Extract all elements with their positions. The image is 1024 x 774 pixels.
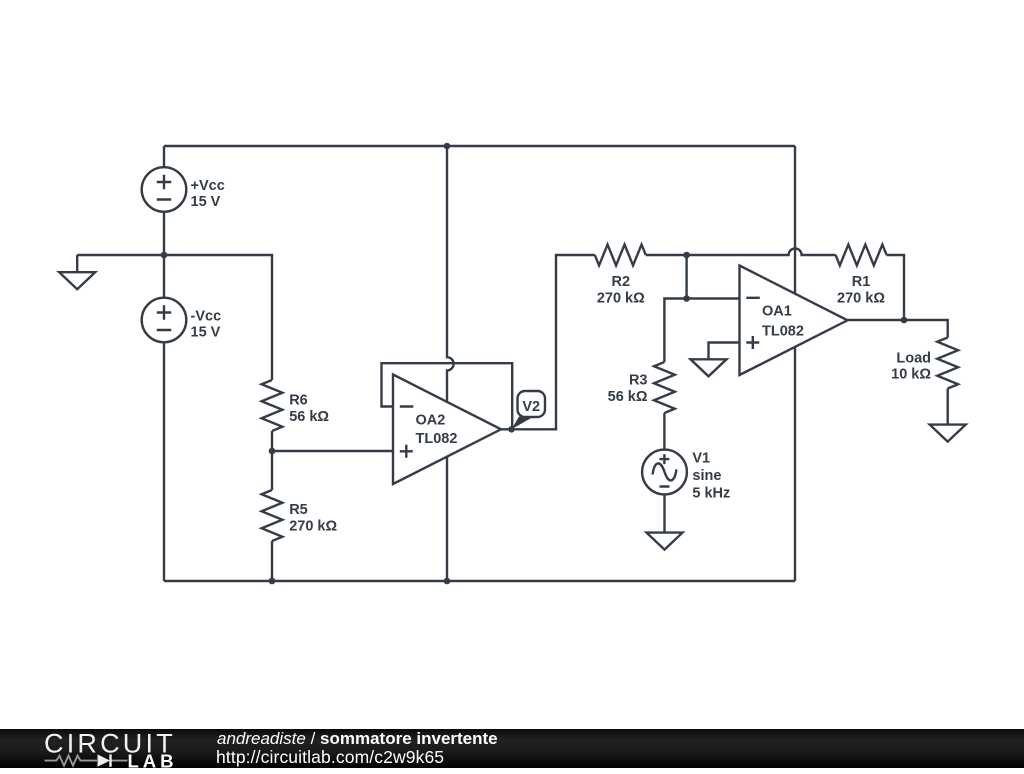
svg-text:270 kΩ: 270 kΩ [289,519,337,535]
svg-text:56 kΩ: 56 kΩ [289,409,329,425]
svg-text:15 V: 15 V [191,194,221,210]
junction OA2 output (node V2) [508,426,515,433]
svg-text:5 kHz: 5 kHz [692,486,730,502]
ground Load [930,425,966,442]
resistor R2 [595,245,646,266]
resistor R6 [262,380,283,431]
svg-text:R6: R6 [289,393,308,409]
svg-text:http://circuitlab.com/c2w9k65: http://circuitlab.com/c2w9k65 [216,747,444,767]
svg-text:-Vcc: -Vcc [191,308,222,324]
junction bottom rail / R5 [269,578,276,585]
svg-text:V2: V2 [522,399,540,415]
wire OA2 feedback loop (output to inverting input) [382,363,513,429]
svg-text:R2: R2 [612,274,631,290]
junction R6/R5/OA2 input (node B) [269,448,276,455]
resistor R1 [836,245,887,266]
junction top rail / center rail [444,143,451,150]
junction left rail / ground branch [161,252,168,259]
wire center rail with hop over feedback [447,146,454,581]
svg-text:270 kΩ: 270 kΩ [837,291,885,307]
wire OA1 output to Load top [848,320,948,338]
wire bottom rail -Vcc net [164,580,795,582]
logo resistor-diode glyph [45,755,128,765]
junction R1 / OA1 output [901,317,908,324]
wire node B to OA2 noninverting input [272,450,393,452]
ground left [59,272,95,289]
source -Vcc [142,298,187,343]
wire left rail between sources [163,212,165,298]
svg-text:andreadiste / sommatore invert: andreadiste / sommatore invertente [217,729,498,748]
ground OA1 [691,359,727,376]
wire right rail [794,146,796,581]
svg-text:OA1: OA1 [762,304,792,320]
svg-text:Load: Load [896,351,931,367]
wire OA1 noninverting input to ground [709,343,740,360]
resistor R5 [262,490,283,541]
wire node A branch to R6 top [164,255,272,380]
node flag V2 [512,391,546,429]
svg-text:TL082: TL082 [762,324,804,340]
wire left rail lower (-Vcc to bottom rail) [163,342,165,581]
svg-text:+Vcc: +Vcc [191,178,225,194]
svg-text:sine: sine [692,468,721,484]
source +Vcc [142,167,187,212]
wire ground branch left [77,255,164,272]
svg-text:R5: R5 [289,502,308,518]
svg-text:15 V: 15 V [191,325,221,341]
svg-text:R3: R3 [629,372,648,388]
svg-text:10 kΩ: 10 kΩ [891,366,931,382]
source V1 sine [642,450,687,495]
wire R2 right to R1 left with hop over right rail [646,249,836,256]
op-amp OA2 [393,375,501,485]
resistor R3 [654,362,675,413]
svg-text:OA2: OA2 [416,412,446,428]
wire top rail +Vcc net [164,145,795,147]
wire left rail upper (+Vcc to top rail) [163,146,165,167]
op-amp OA1 [740,266,848,376]
wire R3 bottom to V1 plus [663,413,665,450]
wire R5 bottom to bottom rail [271,541,273,581]
svg-text:R1: R1 [852,274,871,290]
wire V1 minus to ground [663,494,665,532]
wire R6 bottom to R5 top [271,431,273,490]
wire Load bottom to ground [947,389,949,425]
ground V1 [647,533,683,550]
junction OA1 inverting input / R3 [683,295,690,302]
svg-text:56 kΩ: 56 kΩ [608,389,648,405]
junction R2/R1 wire [683,252,690,259]
resistor Load [937,338,958,389]
svg-text:TL082: TL082 [416,431,458,447]
svg-text:270 kΩ: 270 kΩ [597,291,645,307]
junction bottom rail / center rail [444,578,451,585]
wire R1 right down to OA1 output net [887,255,904,320]
svg-text:V1: V1 [692,450,710,466]
wire OA1 inverting input branch [664,255,739,362]
wire OA2 output to R2 left [501,255,595,429]
svg-text:LAB: LAB [128,750,178,769]
